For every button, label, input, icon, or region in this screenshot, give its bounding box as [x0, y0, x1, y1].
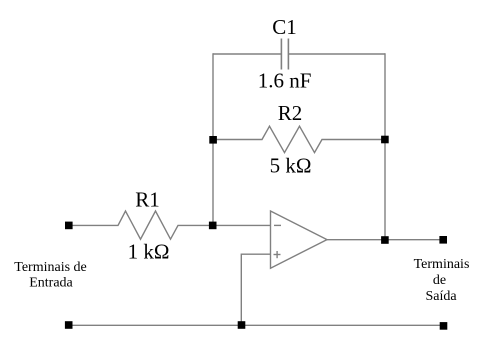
svg-text:1.6 nF: 1.6 nF — [258, 69, 312, 93]
svg-text:5 kΩ: 5 kΩ — [270, 154, 312, 178]
wire: output lead — [327, 239, 443, 241]
svg-text:de: de — [433, 273, 446, 288]
wire: non-inverting input lead — [241, 253, 270, 255]
op-amp inverting input (-) symbol — [274, 224, 281, 226]
op-amp U1 — [271, 211, 328, 268]
op-amp non-inverting input (+) symbol — [274, 251, 281, 258]
node: output terminal (top right) — [439, 236, 447, 244]
resistor R2 — [213, 126, 385, 152]
node: junction right rail / output — [381, 236, 389, 244]
svg-text:Entrada: Entrada — [29, 275, 73, 290]
node: bottom-right terminal — [440, 322, 448, 330]
svg-text:Saída: Saída — [425, 289, 457, 304]
svg-text:Terminais: Terminais — [414, 257, 470, 272]
wire: top feedback branch, left segment to C1 — [213, 53, 281, 55]
wire: left feedback rail (vertical) — [212, 53, 214, 225]
node: junction bottom rail / non-inverting drop — [238, 321, 246, 329]
label: Terminais de Saída — [414, 257, 470, 304]
node: junction left rail / R2 — [209, 136, 217, 144]
wire: bottom return rail — [69, 324, 444, 326]
label: Terminais de Entrada — [14, 260, 87, 291]
node: junction R1 / inverting input / left rail — [209, 222, 217, 230]
svg-text:R2: R2 — [278, 101, 303, 125]
wire: non-inverting input drop to ground rail — [240, 254, 242, 326]
wire: top feedback branch, right segment from C1 — [289, 53, 385, 55]
capacitor C1 — [281, 39, 288, 70]
svg-text:C1: C1 — [272, 15, 297, 39]
svg-text:Terminais de: Terminais de — [14, 260, 87, 275]
svg-text:R1: R1 — [135, 188, 160, 212]
node: junction right rail / R2 — [381, 136, 389, 144]
wire: inverting input lead — [213, 224, 271, 226]
wire: right feedback rail (vertical) — [384, 53, 386, 240]
resistor R1 — [69, 211, 213, 239]
svg-text:1 kΩ: 1 kΩ — [128, 240, 170, 264]
node: input terminal (top left) — [65, 222, 73, 230]
node: bottom-left terminal — [65, 321, 73, 329]
